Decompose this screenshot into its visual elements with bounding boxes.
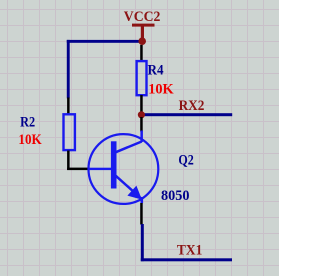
pin Q2 collector xyxy=(140,117,143,132)
wire VCC horizontal (top) xyxy=(67,40,143,43)
junction dot at VCC node xyxy=(138,37,146,45)
transistor Q2 emitter pin stub xyxy=(141,197,144,203)
pin Q2 emitter xyxy=(140,203,143,225)
transistor Q2 base pin (blue) xyxy=(89,168,111,170)
label R4 xyxy=(148,63,164,79)
resistor R4 xyxy=(137,61,147,95)
svg-text:R2: R2 xyxy=(20,114,35,130)
wire R2 to base (horizontal) xyxy=(67,168,89,171)
pin R4 top xyxy=(140,45,143,61)
net label RX2 xyxy=(179,98,205,114)
wire left vertical (to R2) xyxy=(67,40,70,99)
wire RX2 horizontal xyxy=(141,113,233,116)
svg-text:10K: 10K xyxy=(148,82,174,98)
transistor Q2 base bar xyxy=(111,141,117,188)
svg-text:8050: 8050 xyxy=(161,188,190,204)
pin R2 bottom xyxy=(67,151,70,171)
transistor Q2 emitter arrow xyxy=(127,186,141,200)
label R2 xyxy=(20,114,35,130)
value 10K (R2) xyxy=(18,132,42,148)
transistor Q2 collector line xyxy=(116,142,142,153)
transistor Q2 emitter line xyxy=(116,176,142,199)
net label TX1 xyxy=(177,243,202,259)
designator Q2 xyxy=(178,152,193,168)
value 8050 xyxy=(161,188,190,204)
power symbol VCC2 xyxy=(124,9,161,39)
pin R4 bottom xyxy=(140,95,143,114)
value 10K (R4) xyxy=(148,82,174,98)
junction dot at RX2 node xyxy=(138,111,145,118)
wire TX vertical xyxy=(141,224,144,261)
wire TX1 horizontal xyxy=(141,258,232,261)
transistor Q2 collector pin stub xyxy=(140,131,143,143)
svg-text:10K: 10K xyxy=(18,132,42,148)
transistor Q2 body circle xyxy=(89,134,159,204)
svg-text:Q2: Q2 xyxy=(178,152,193,168)
svg-text:TX1: TX1 xyxy=(177,243,202,259)
pin R2 top xyxy=(67,98,70,114)
resistor R2 xyxy=(64,114,75,150)
svg-text:VCC2: VCC2 xyxy=(124,9,161,25)
svg-text:RX2: RX2 xyxy=(179,98,205,114)
svg-text:R4: R4 xyxy=(148,63,164,79)
